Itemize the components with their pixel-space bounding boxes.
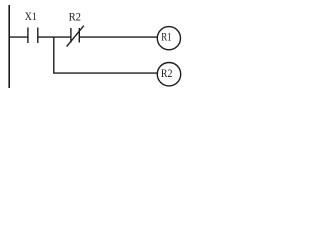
svg-text:R1: R1: [161, 29, 171, 43]
svg-text:X1: X1: [25, 9, 37, 23]
svg-text:R2: R2: [69, 9, 81, 23]
svg-text:R2: R2: [161, 66, 173, 80]
